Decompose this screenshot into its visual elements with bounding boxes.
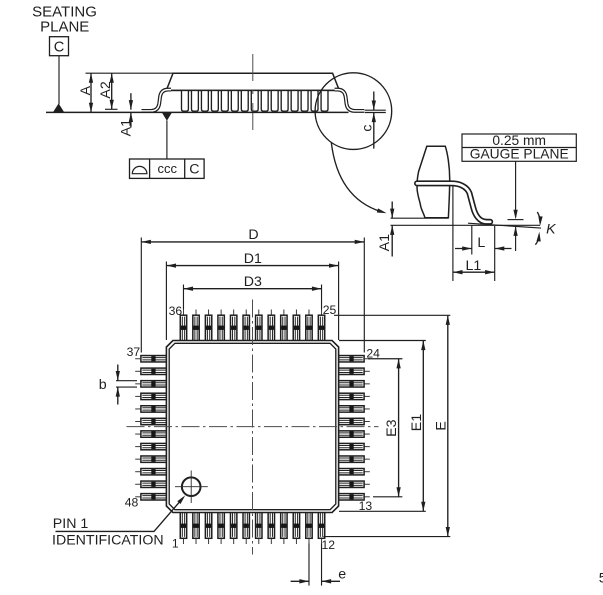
svg-text:PLANE: PLANE xyxy=(40,19,89,36)
wire: detail leader arc xyxy=(331,143,381,212)
svg-text:D3: D3 xyxy=(244,274,262,290)
package body inner outline xyxy=(169,343,336,509)
svg-text:12: 12 xyxy=(322,538,336,552)
dimension e xyxy=(291,544,347,586)
package body outer outline (top view) xyxy=(166,341,338,513)
pin 1 identification circle xyxy=(175,471,208,504)
datum triangle on seating plane (left) xyxy=(53,103,64,112)
wire: datum C leader xyxy=(58,56,60,104)
lead ribs row (side view) xyxy=(182,90,328,111)
svg-text:A: A xyxy=(78,85,94,95)
svg-text:K: K xyxy=(546,221,556,237)
datum C box xyxy=(50,37,69,56)
seating plane line (detail) xyxy=(391,224,541,226)
svg-text:c: c xyxy=(360,125,376,132)
right gull-wing lead (side view) xyxy=(335,90,365,111)
dimension D1 xyxy=(166,251,338,340)
svg-text:48: 48 xyxy=(125,495,139,509)
dimension A2 xyxy=(98,73,117,109)
pin row left (37..48) xyxy=(135,356,168,500)
svg-text:L: L xyxy=(477,235,485,251)
svg-text:D1: D1 xyxy=(244,251,262,267)
svg-text:A2: A2 xyxy=(98,81,114,98)
svg-text:e: e xyxy=(338,566,346,582)
dimension K (angle) xyxy=(535,212,556,245)
svg-text:C: C xyxy=(189,162,199,178)
dimension L1 xyxy=(453,258,495,275)
dimension A1 (detail) xyxy=(377,202,449,257)
centerline (side view) xyxy=(252,54,254,131)
left gull-wing lead (side view) xyxy=(142,90,172,111)
body cross-section blob xyxy=(417,146,450,217)
svg-text:5: 5 xyxy=(599,571,603,587)
dimension A xyxy=(78,73,94,112)
svg-text:13: 13 xyxy=(359,499,373,513)
svg-text:E1: E1 xyxy=(409,414,425,431)
dimension E3 xyxy=(368,359,402,497)
dimension E1 xyxy=(339,341,426,512)
svg-text:36: 36 xyxy=(169,304,183,318)
dimension c ticks xyxy=(360,92,386,149)
dimension A1 (side view) xyxy=(118,93,134,136)
detail circle xyxy=(315,73,392,150)
wire: top extension line from body top xyxy=(86,72,175,74)
wire: pin1 leader xyxy=(56,498,184,532)
svg-text:A1: A1 xyxy=(118,119,134,136)
svg-text:37: 37 xyxy=(127,345,141,359)
svg-text:GAUGE PLANE: GAUGE PLANE xyxy=(470,147,569,162)
dimension E xyxy=(324,315,451,536)
dimension b xyxy=(99,365,137,405)
ccc feature control frame xyxy=(130,159,205,178)
seating plane line xyxy=(46,111,349,113)
dimension D xyxy=(141,227,364,353)
dimension D3 xyxy=(183,274,321,310)
K slant line xyxy=(468,223,541,228)
dimension L xyxy=(453,186,512,281)
svg-text:24: 24 xyxy=(366,347,380,361)
wire: gauge plane leader xyxy=(508,161,524,251)
svg-text:L1: L1 xyxy=(466,258,482,274)
wire: lead shoulder line over ribs xyxy=(166,89,339,91)
wire: ccc frame leader xyxy=(166,121,168,160)
svg-text:b: b xyxy=(99,377,107,393)
svg-text:1: 1 xyxy=(172,537,179,551)
svg-text:E: E xyxy=(433,421,449,430)
package body side outline xyxy=(166,73,339,90)
gauge plane box xyxy=(462,133,576,162)
centerline horizontal (top view) xyxy=(127,426,379,428)
pin row top (36..25) xyxy=(180,310,324,343)
svg-text:A1: A1 xyxy=(377,234,393,251)
svg-text:PIN 1: PIN 1 xyxy=(53,516,89,532)
svg-text:25: 25 xyxy=(323,303,337,317)
detail gull-wing lead xyxy=(417,183,490,221)
svg-text:C: C xyxy=(54,40,65,56)
pin row right (24..13) xyxy=(337,356,370,500)
svg-text:ccc: ccc xyxy=(157,161,177,176)
datum triangle below seating plane xyxy=(162,112,172,121)
svg-text:D: D xyxy=(248,227,258,243)
svg-text:E3: E3 xyxy=(384,419,400,436)
pin row bottom (1..12) xyxy=(180,511,324,544)
centerline vertical (top view) xyxy=(252,300,254,555)
svg-text:IDENTIFICATION: IDENTIFICATION xyxy=(52,532,164,548)
